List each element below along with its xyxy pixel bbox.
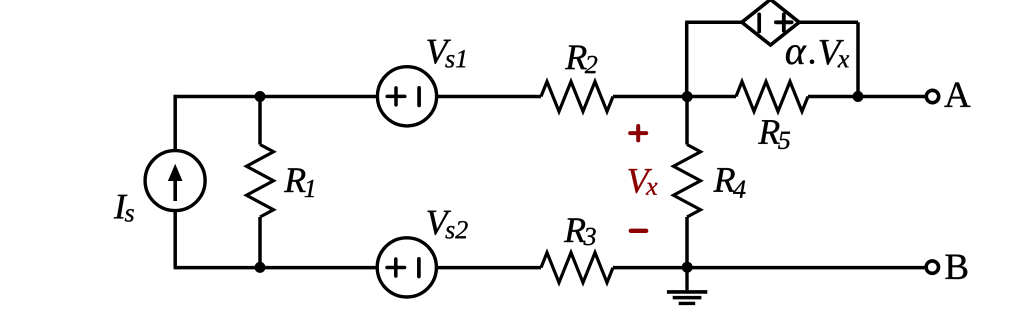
resistor R3 (541, 253, 613, 283)
dependent source alpha.Vx (742, 0, 799, 45)
label R4 (713, 168, 745, 198)
voltage source Vs1 (377, 67, 436, 126)
wire dependent source left vertical (685, 22, 689, 96)
terminal B (926, 261, 938, 273)
node junction dot top of R4 (682, 91, 693, 102)
node junction dot right of R5 (853, 91, 864, 102)
wire bottom rail R3-to-terminal-B segment (613, 266, 926, 270)
label R1 (284, 168, 314, 197)
label Is (114, 195, 134, 222)
label A (944, 82, 970, 106)
resistor R2 (541, 82, 613, 112)
wire R1 bottom stub (258, 217, 262, 268)
label R5 (758, 120, 790, 149)
label alpha.Vx (786, 45, 806, 64)
ground (667, 268, 707, 304)
wire bottom rail left segment (174, 266, 378, 270)
current source Is (145, 151, 205, 211)
node junction dot top of R1 (255, 91, 266, 102)
label R3 (564, 218, 596, 245)
resistor R1 (247, 145, 274, 218)
wire top rail Vs1-to-R2 segment (437, 95, 541, 99)
label Vx (red) (628, 169, 657, 195)
wire dependent source right vertical (856, 22, 860, 96)
wire bottom rail Vs2-to-R3 segment (436, 266, 541, 270)
voltage source Vs2 (377, 238, 436, 297)
annotation plus sign (red) (630, 126, 646, 140)
wire R4 top stub (685, 97, 689, 145)
label Vs1 (427, 40, 465, 68)
resistor R4 (674, 145, 701, 218)
resistor R5 (736, 82, 808, 112)
wire top rail R5-to-terminal-A segment (808, 95, 926, 99)
label R2 (565, 46, 597, 74)
terminal A (926, 90, 938, 102)
annotation minus sign (red) (631, 229, 646, 233)
node junction dot bottom of R1 (255, 262, 266, 273)
wire top rail R2-to-R5 segment (613, 95, 736, 99)
wire dependent source right horizontal (799, 21, 858, 25)
wire R1 top stub (258, 97, 262, 145)
label Vs2 (427, 211, 467, 239)
label B (945, 255, 967, 279)
wire left vertical upper segment (173, 95, 177, 151)
wire dependent source left horizontal (685, 21, 742, 25)
node junction dot bottom of R4 (ground node) (682, 262, 693, 273)
wire left vertical lower segment (173, 211, 177, 268)
wire R4 bottom stub (685, 217, 689, 268)
wire top rail left segment (174, 95, 378, 99)
